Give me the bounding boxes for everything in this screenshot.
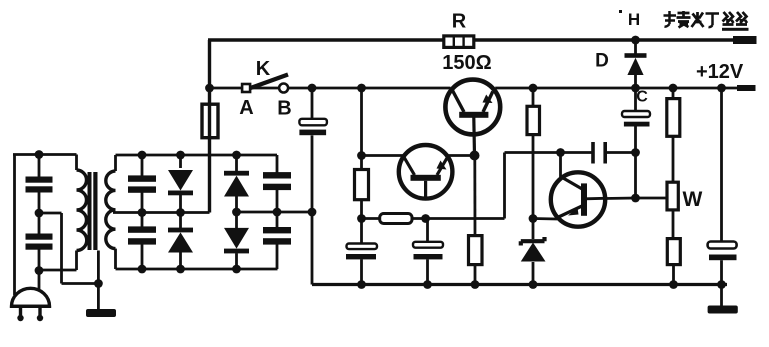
capacitor C2 (emitter bypass) bbox=[346, 244, 377, 260]
node col2 bottom bbox=[176, 265, 185, 274]
node switch-feed junction bbox=[205, 84, 214, 93]
wire 312 vertical bbox=[311, 88, 314, 285]
wire primary bottom bbox=[39, 251, 77, 271]
node T2 base bbox=[421, 214, 430, 223]
node 362 bottom bbox=[357, 280, 366, 289]
transformer T secondary bbox=[106, 155, 116, 269]
node col2 top bbox=[176, 151, 185, 160]
node col3 mid bbox=[232, 208, 241, 217]
capacitor C8 (bridge col1 top) bbox=[128, 155, 156, 213]
node 362-155 bbox=[357, 151, 366, 160]
wire right column bbox=[720, 88, 723, 285]
diode DW (zener) bbox=[521, 237, 546, 285]
node col4 mid bbox=[273, 208, 282, 217]
wire R3 vertical bbox=[532, 88, 535, 239]
wire base line 218 bbox=[362, 153, 561, 219]
wire AC left vertical bbox=[13, 155, 16, 296]
capacitor C9 (bridge col1 bottom) bbox=[128, 213, 156, 270]
node rail-635 bbox=[631, 84, 640, 93]
node rail-721 (+12V) bbox=[717, 84, 726, 93]
node 312 bridge-out bbox=[308, 208, 317, 217]
node T3 collector tap bbox=[556, 148, 565, 157]
resistor R5 bbox=[469, 236, 483, 265]
node col2 mid bbox=[176, 208, 185, 217]
label H bbox=[628, 10, 640, 29]
node rail-673 bbox=[669, 84, 678, 93]
diode D4 (col3 bottom) bbox=[224, 212, 249, 269]
wire bridge top line bbox=[116, 154, 278, 157]
capacitor C11 (bridge col4 bottom) bbox=[263, 212, 291, 269]
transistor Q1 bbox=[445, 80, 500, 156]
svg-text:R: R bbox=[452, 11, 467, 33]
node 635-198 bbox=[631, 194, 640, 203]
potentiometer W bbox=[667, 182, 678, 238]
label K bbox=[256, 58, 271, 80]
svg-text:A: A bbox=[239, 97, 253, 119]
node col1 top bbox=[138, 151, 147, 160]
node zener top bbox=[529, 214, 538, 223]
wire T2 collector line bbox=[362, 154, 404, 157]
wire bottom rail bbox=[312, 283, 727, 286]
wire T3 base to 635 bbox=[605, 197, 636, 200]
wire left feed vertical bbox=[208, 40, 211, 213]
capacitor C6 (line filter upper) bbox=[26, 177, 53, 193]
wire T3 collector bbox=[559, 153, 562, 178]
switch K terminal A bbox=[242, 84, 250, 92]
diode D3 (col3 top) bbox=[224, 155, 249, 212]
transformer core bbox=[88, 172, 98, 250]
label W bbox=[683, 188, 703, 211]
capacitor C10 (bridge col4 top) bbox=[263, 155, 291, 212]
wire switch rail bbox=[210, 85, 756, 91]
diode D1 (col2 top) bbox=[168, 155, 193, 213]
wire top rail bbox=[208, 36, 757, 44]
capacitor C3 (under T2 base) bbox=[413, 219, 443, 285]
wire bridge mid-left bbox=[113, 211, 210, 214]
label jiedengsi (fake CJK strokes) bbox=[619, 10, 749, 31]
transformer T primary bbox=[77, 155, 87, 251]
node col1 mid bbox=[138, 208, 147, 217]
node C3 bottom bbox=[423, 280, 432, 289]
label A bbox=[239, 97, 253, 119]
node zener bottom bbox=[529, 280, 538, 289]
svg-text:K: K bbox=[256, 58, 271, 80]
resistor R3 bbox=[527, 106, 540, 134]
label D bbox=[595, 51, 609, 72]
svg-text:D: D bbox=[595, 51, 609, 72]
resistor R2 bbox=[355, 170, 369, 200]
node transformer ground bbox=[94, 279, 103, 288]
capacitor C bbox=[622, 111, 650, 127]
capacitor C1 (below B) bbox=[299, 119, 327, 135]
resistor RW1 (upper fixed) bbox=[667, 88, 680, 182]
capacitor C5 (output) bbox=[708, 242, 737, 261]
node output cap bottom bbox=[717, 280, 726, 289]
capacitor C4 (series, horizontal) bbox=[561, 142, 636, 164]
wire wiper bbox=[636, 197, 668, 200]
wire 362 vertical bbox=[360, 88, 363, 285]
svg-text:150Ω: 150Ω bbox=[442, 52, 491, 74]
node col3 top bbox=[232, 151, 241, 160]
label B bbox=[277, 98, 291, 120]
wire cap column bbox=[38, 155, 41, 291]
capacitor C7 (line filter lower) bbox=[26, 234, 53, 250]
diode D2 (col2 bottom) bbox=[168, 213, 193, 270]
wire R5 vertical (T1 base divider) bbox=[473, 156, 476, 285]
resistor RW2 (lower fixed) bbox=[667, 239, 680, 285]
svg-text:H: H bbox=[628, 10, 640, 29]
node rail-312 bbox=[308, 84, 317, 93]
resistor R1 (fuse-style box) bbox=[202, 104, 218, 138]
ground left bbox=[86, 309, 116, 317]
node T1 base bbox=[470, 151, 480, 161]
transistor Q2 bbox=[399, 145, 453, 199]
wire bridge bottom line bbox=[116, 268, 278, 271]
wire 635 vertical bbox=[634, 88, 637, 198]
AC plug P bbox=[11, 288, 50, 321]
wire bridge mid-right bbox=[237, 211, 313, 214]
node col3 bottom bbox=[232, 265, 241, 274]
wire core ground bbox=[97, 251, 100, 311]
node R5 bottom bbox=[471, 280, 480, 289]
resistor R4 (horizontal) bbox=[380, 214, 412, 224]
svg-text:W: W bbox=[683, 188, 703, 211]
transistor Q3 bbox=[551, 172, 605, 226]
node D top bbox=[631, 36, 640, 45]
wire T2 collector to T1 base node bbox=[448, 154, 475, 157]
node filter midpoint bbox=[35, 209, 44, 218]
switch K lever bbox=[251, 75, 289, 89]
switch K terminal B bbox=[279, 84, 288, 93]
svg-text:C: C bbox=[636, 89, 648, 106]
node plug right wire bbox=[35, 266, 44, 275]
label C bbox=[636, 89, 648, 106]
svg-text:B: B bbox=[277, 98, 291, 120]
label +12V bbox=[696, 61, 744, 83]
svg-text:+12V: +12V bbox=[696, 61, 744, 83]
diode D bbox=[625, 40, 647, 88]
ground right bbox=[708, 285, 738, 314]
resistor R bbox=[444, 36, 474, 48]
wire AC top line bbox=[13, 153, 77, 156]
node rail-362 bbox=[357, 84, 366, 93]
node cap column top bbox=[35, 150, 44, 159]
wire midpoint to ground drop bbox=[39, 213, 98, 284]
node 362-218 bbox=[357, 214, 366, 223]
wire T3 emitter bbox=[533, 217, 557, 220]
label 150ohm bbox=[442, 52, 491, 74]
node W bottom bbox=[669, 280, 678, 289]
node col1 bottom bbox=[138, 265, 147, 274]
node 635-152 bbox=[631, 148, 640, 157]
label R bbox=[452, 11, 467, 33]
node rail-533 bbox=[529, 84, 538, 93]
